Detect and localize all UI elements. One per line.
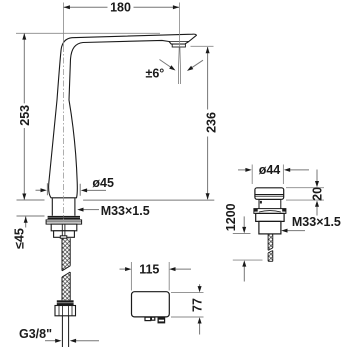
svg-text:20: 20: [310, 187, 324, 201]
locknut lower: [54, 231, 75, 238]
dimension o45 extension ticks: [47, 183, 80, 195]
dimension 253: [23, 33, 25, 200]
counter top line (left): [17, 199, 45, 201]
connection nut: [55, 306, 76, 316]
control box connector: [158, 317, 166, 323]
svg-text:1200: 1200: [224, 203, 238, 231]
svg-text:±6°: ±6°: [146, 67, 165, 81]
svg-text:180: 180: [110, 1, 131, 15]
seal washer (dark): [48, 216, 80, 218]
counter top line (right of faucet): [83, 199, 214, 201]
control box: [132, 292, 170, 317]
valve cable lower segment: [268, 251, 273, 262]
dimension 236: [191, 45, 214, 47]
water stream lines: [177, 47, 180, 84]
threaded rod: [62, 224, 65, 236]
shank cylinder through counter: [52, 198, 75, 216]
label M33x1.5 (valve): [288, 230, 306, 232]
valve cable upper segment: [268, 234, 273, 250]
dimension 180: [64, 6, 180, 8]
dimension <=45 counter thickness: [25, 217, 27, 228]
svg-text:ø45: ø45: [92, 176, 114, 190]
centerline of faucet (dash-dot): [62, 3, 64, 47]
locknut upper: [51, 224, 77, 231]
svg-text:G3/8": G3/8": [19, 327, 52, 341]
spout underside crease line: [169, 40, 189, 42]
faucet spout and cone body outline: [49, 34, 197, 198]
valve stem: [259, 200, 281, 210]
outlet extension line: [178, 3, 180, 47]
flange washer: [46, 220, 82, 224]
supply hose upper segment (braided): [62, 238, 70, 270]
dimension 1200: [243, 216, 245, 230]
dimension 20: [286, 188, 324, 200]
dimension o45: [36, 189, 107, 191]
dimension o44: [252, 165, 283, 185]
svg-text:115: 115: [139, 263, 159, 277]
valve lower body: [259, 221, 281, 234]
label M33x1.5 (faucet shank): [84, 209, 100, 211]
rod cap: [60, 236, 67, 238]
svg-text:236: 236: [205, 112, 219, 133]
dimension +-6 degrees: [160, 60, 172, 68]
dimension 115: [131, 262, 169, 291]
svg-text:≤45: ≤45: [12, 228, 26, 249]
valve knob: [255, 188, 284, 200]
svg-text:M33×1.5: M33×1.5: [292, 215, 341, 229]
svg-text:ø44: ø44: [259, 163, 281, 177]
svg-text:77: 77: [190, 298, 204, 312]
svg-text:253: 253: [18, 105, 32, 126]
counter bottom line (left): [17, 215, 45, 217]
control box foot 2: [151, 317, 154, 320]
dimension 77: [171, 293, 204, 317]
aerator: [172, 44, 185, 47]
valve upper body: [256, 213, 284, 221]
G3/8 connection pipe: [62, 316, 68, 347]
valve escutcheon: [254, 209, 286, 214]
control box foot 1: [145, 317, 151, 320]
svg-text:M33×1.5: M33×1.5: [101, 204, 150, 218]
supply hose lower segment (braided): [62, 272, 70, 300]
hose crimp collar: [57, 300, 74, 302]
top reference line: [16, 32, 160, 34]
